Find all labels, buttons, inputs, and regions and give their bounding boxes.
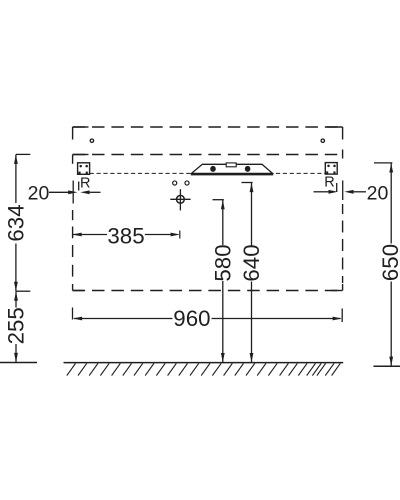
svg-text:640: 640 [239, 244, 264, 281]
rail screw hole left (filled) [210, 166, 216, 172]
left bracket label R [80, 175, 90, 191]
mounting rail bracket (trapezoid) [191, 164, 273, 174]
right wall bracket R [325, 163, 337, 175]
svg-text:634: 634 [4, 204, 29, 241]
faucet hole right [185, 181, 189, 185]
svg-text:650: 650 [378, 244, 400, 281]
svg-text:R: R [80, 175, 90, 191]
dimension 580: line with arrows [213, 200, 225, 363]
dimension 640: line with arrows [242, 183, 254, 363]
dimension 255: line with arrows [14, 291, 18, 362]
svg-text:385: 385 [107, 223, 144, 248]
dimension 20 left: arrows and lines [49, 190, 101, 194]
dimension 385: line and arrows [72, 231, 180, 239]
svg-text:R: R [324, 175, 334, 191]
cabinet outline left edge (dashed) [72, 127, 74, 291]
dimension 20 left: extension ticks [73, 181, 79, 204]
dimension 640: label [239, 244, 264, 281]
dimension 385: label [107, 223, 144, 248]
floor line left extension [0, 362, 37, 364]
dimension 960: ticks [73, 308, 343, 323]
dimension 20 left: label [28, 183, 50, 205]
cabinet outline bottom edge (dashed) [73, 290, 343, 292]
floor line right extension [374, 365, 400, 367]
dimension 20 right: extension ticks [337, 181, 343, 201]
dimension 255: label [4, 307, 29, 344]
svg-text:20: 20 [28, 183, 50, 205]
dimension 580: label [211, 244, 236, 281]
right bracket label R [324, 175, 334, 191]
svg-text:20: 20 [367, 183, 389, 205]
rail screw hole right (filled) [245, 166, 251, 172]
cabinet outline right edge (dashed) [342, 127, 344, 291]
dimension 20 right: label [367, 183, 389, 205]
wall fixing dotted line [90, 172, 326, 174]
dimension 960: label [173, 306, 210, 331]
drain center mark (crosshair) [170, 189, 190, 210]
rail center notch rectangle [226, 163, 236, 167]
cabinet outline top edge (dashed) [73, 126, 343, 128]
dimension 960: line and arrows [73, 317, 342, 321]
floor line main [64, 362, 344, 364]
floor hatching [67, 363, 341, 375]
left vent hole circle [90, 139, 93, 142]
svg-text:255: 255 [4, 307, 29, 344]
faucet hole left [173, 181, 177, 185]
right vent hole circle [321, 139, 324, 142]
dimension 634: label [4, 204, 29, 241]
svg-text:580: 580 [211, 244, 236, 281]
dimension 650: label [378, 244, 400, 281]
cabinet worktop lower edge (dashed) [73, 154, 343, 156]
dimension 20 right: arrows and lines [314, 190, 367, 194]
dimension 634: line with arrows [14, 154, 30, 291]
dimension 650: line with arrows [374, 163, 393, 366]
svg-text:960: 960 [173, 306, 210, 331]
left wall bracket R [78, 163, 90, 175]
